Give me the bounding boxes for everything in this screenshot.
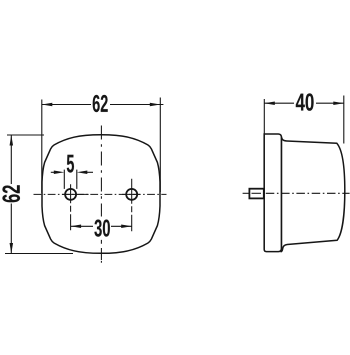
dimension 5: label (67, 155, 74, 173)
hole left vertical centerline (70, 184, 72, 230)
dimension 62 width: label (93, 95, 108, 112)
horizontal centerline (side view) (243, 192, 249, 194)
lamp body drum (side view) (281, 136, 344, 251)
dimension 40: left arrowhead (264, 101, 275, 105)
dimension 5: left tail and arrowhead (51, 171, 56, 173)
connector pin (side view) (249, 189, 263, 199)
dimension 62 height: dimension line (10, 135, 12, 254)
dimension 62 width: right arrowhead (150, 103, 161, 107)
dimension 62 width: left arrowhead (42, 103, 53, 107)
lens outline (front view) (42, 135, 160, 254)
dimension 62 width: dimension line (42, 104, 164, 106)
dimension 30: left arrowhead (71, 225, 82, 229)
dimension 30: dimension line (71, 225, 132, 227)
dimension 40: extension line above flange (263, 99, 265, 134)
dimension 40: label (296, 93, 314, 110)
dimension 30: right arrowhead (121, 225, 132, 229)
dimension 62 height: extension lines (7, 134, 44, 136)
dimension 62 height: bottom arrowhead (10, 243, 14, 254)
hole right vertical centerline (131, 179, 133, 231)
horizontal centerline through holes (front view) (34, 193, 167, 195)
vertical centerline (front view) (100, 126, 102, 217)
solid centerline bars through holes (62, 193, 140, 195)
dimension 30: label (94, 220, 110, 237)
dimension 62 width: extension lines (41, 100, 43, 194)
mounting flange (side view) (264, 134, 281, 252)
dimension 62 height: top arrowhead (10, 135, 14, 146)
dimension 5: extension lines (63, 170, 65, 189)
hole left (65, 189, 76, 200)
dimension 5: right tail and arrowhead (86, 171, 94, 173)
dimension 40: dimension line (264, 102, 344, 104)
hole right (126, 189, 137, 200)
dimension 62 height: label (rotated) (2, 185, 20, 202)
dimension 40: right arrowhead (333, 101, 344, 105)
